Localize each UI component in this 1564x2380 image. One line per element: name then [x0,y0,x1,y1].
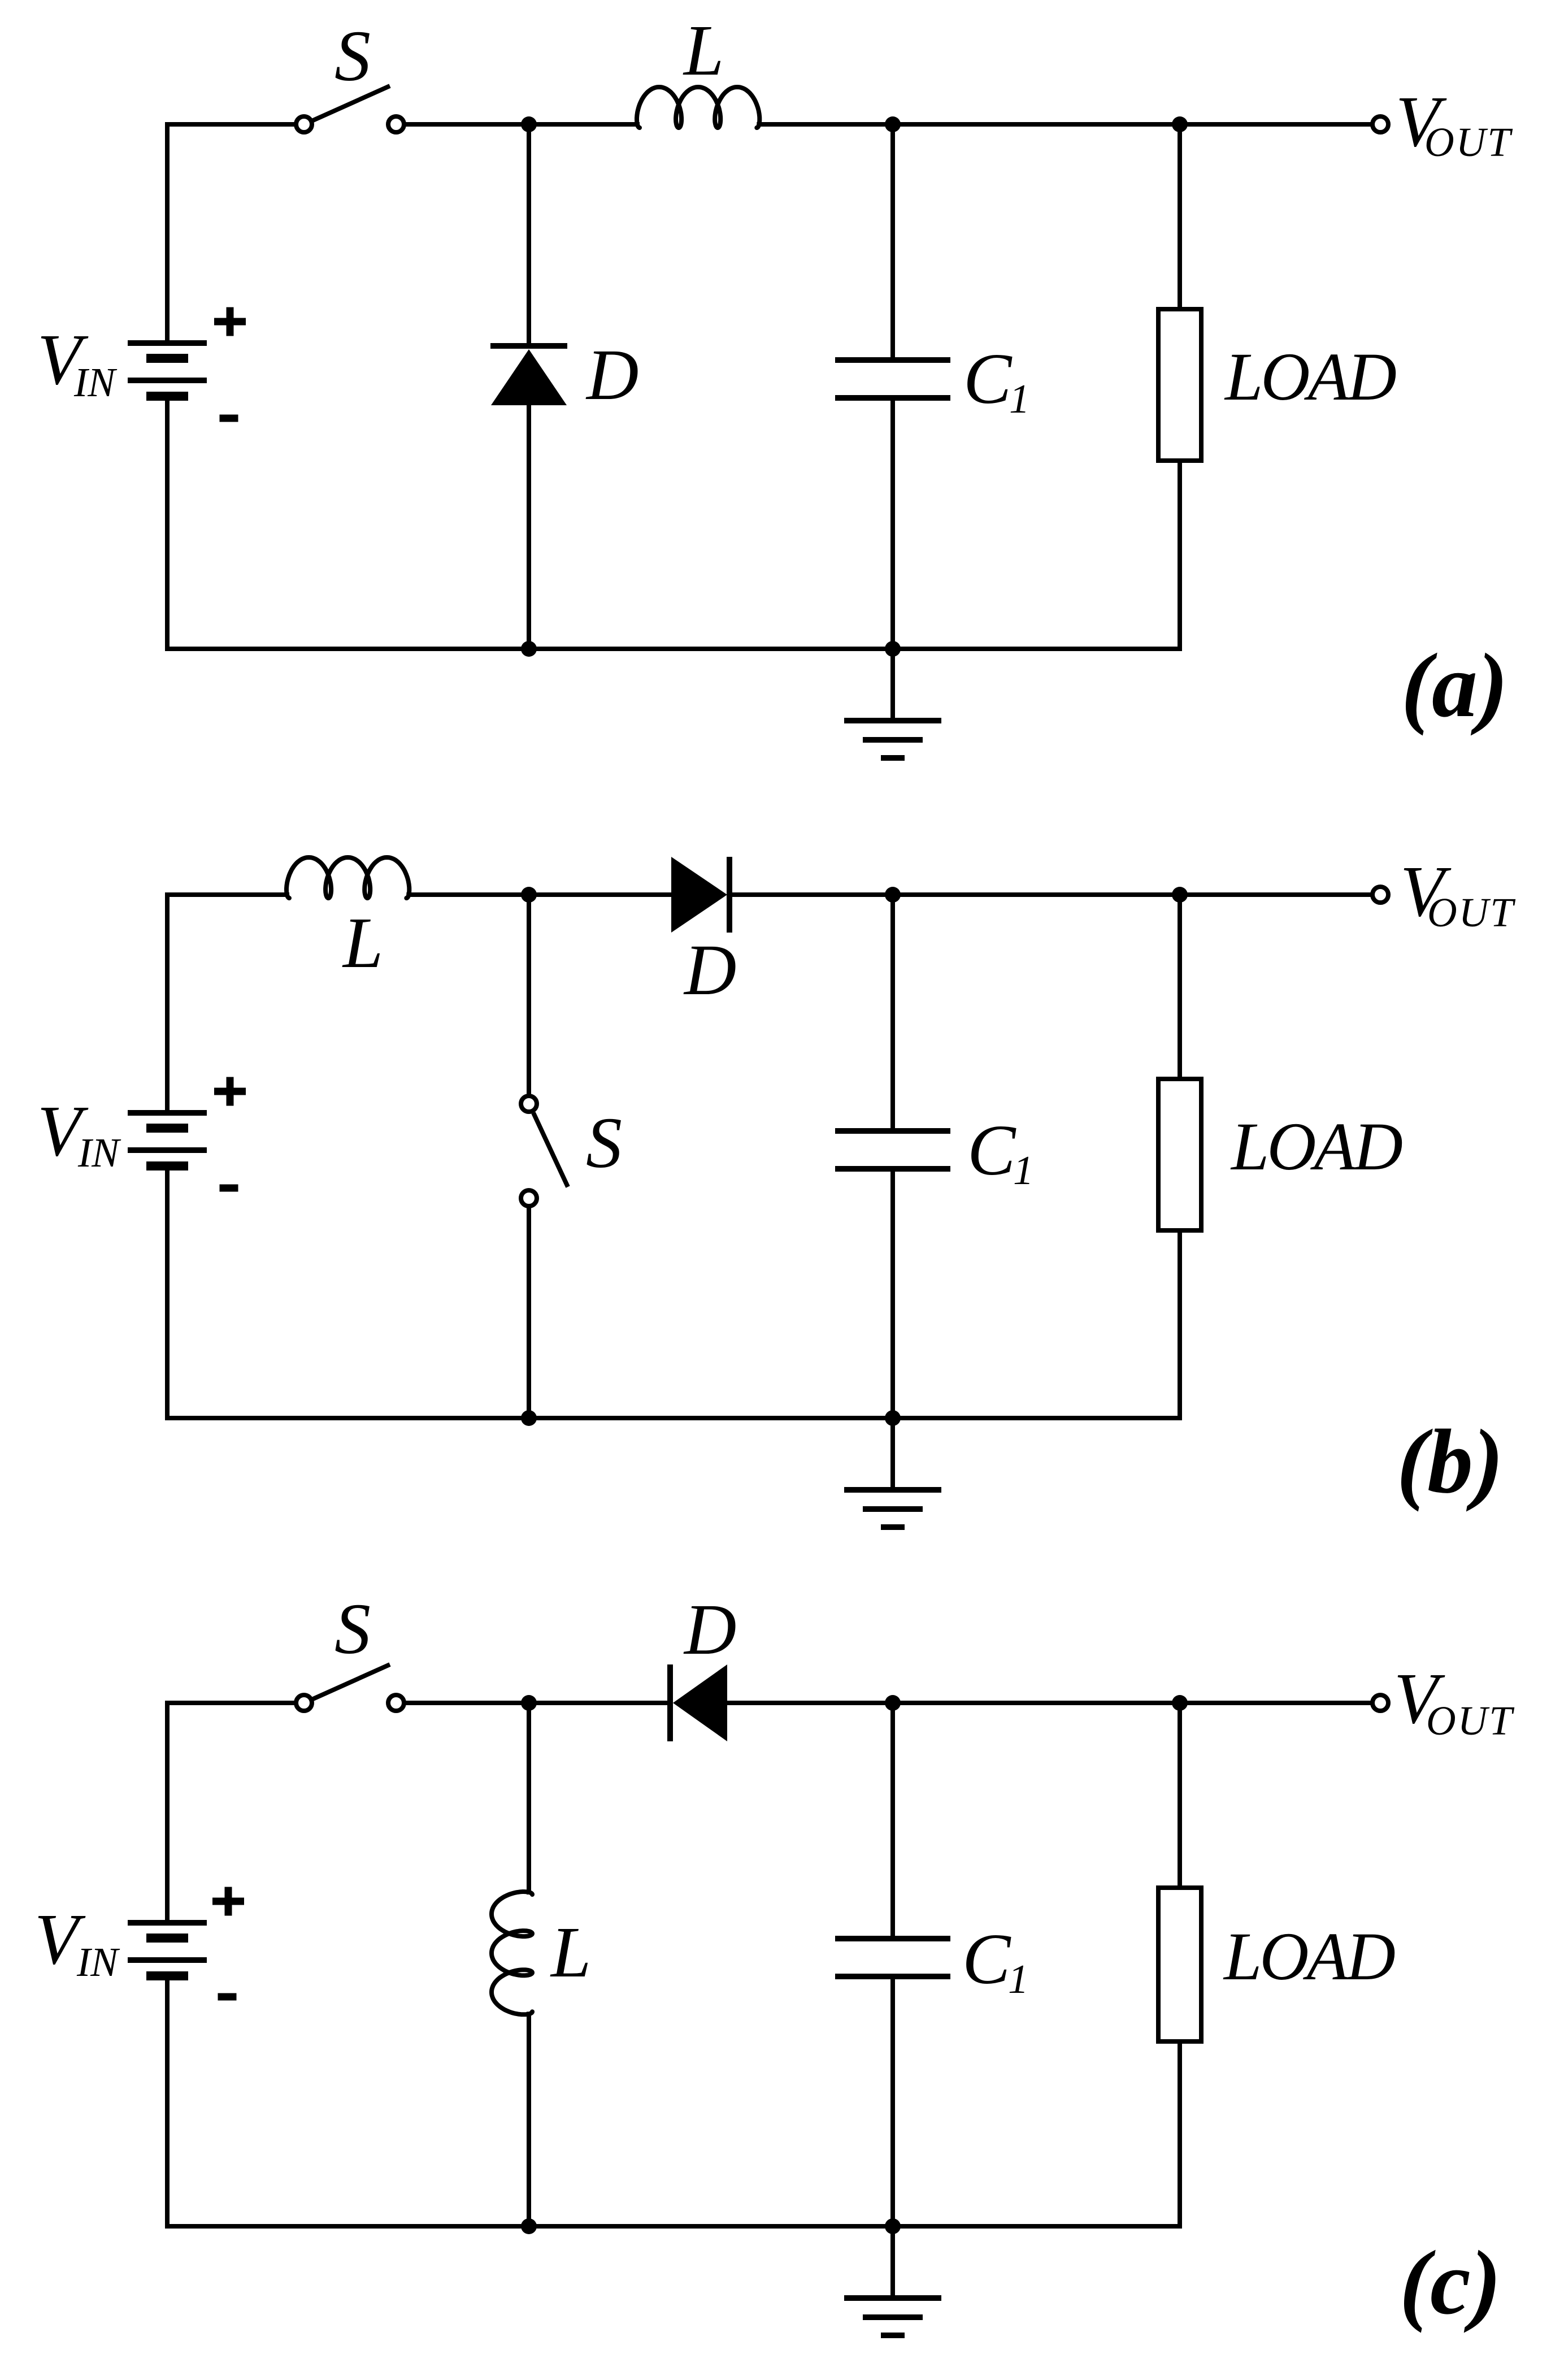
diode D (c) triangle [673,1664,727,1741]
svg-text:S: S [334,16,371,96]
svg-text:S: S [586,1103,622,1183]
switch S (b) lower contact [521,1190,537,1206]
svg-text:IN: IN [77,1130,121,1176]
wire c top right segment [727,1701,1371,1705]
wire c inductor branch upper [527,1703,531,1895]
wire a top-left segment [165,122,294,127]
wire a bottom rail [165,647,1182,651]
wire b top right segment [731,892,1371,897]
terminal Vout (c) [1372,1695,1388,1711]
label - (battery a) [220,415,238,422]
wire c LOAD branch upper [1178,1703,1182,1890]
node: ground-b junction [885,1410,901,1426]
label - (battery b) [220,1185,238,1192]
wire a top middle segment [406,122,640,127]
label - (battery c) [218,1993,237,2001]
wire a left rail [165,122,170,343]
wire b top middle segment [406,892,671,897]
capacitor C1 (b) bottom plate [835,1166,950,1172]
node: C1-b top junction [885,887,901,903]
svg-text:(c): (c) [1400,2232,1501,2334]
wire c inductor branch lower [527,2011,531,2226]
diode D (b) cathode bar [727,857,732,933]
svg-text:L: L [550,1912,591,1992]
capacitor C1 (b) top plate [835,1128,950,1134]
capacitor C1 (c) bottom plate [835,1974,950,1979]
label + (battery a) [214,318,246,326]
inductor L (circuit c) [492,1892,532,2014]
wire a C1 branch lower [890,398,895,649]
switch S (c) lever [313,1664,390,1699]
svg-text:D: D [683,1589,736,1670]
node: inductor-c bottom junction [521,2218,537,2234]
wire c C1 branch upper [890,1703,895,1939]
svg-text:C: C [963,339,1013,419]
svg-text:C: C [967,1110,1016,1190]
wire b switch branch upper [527,895,531,1094]
wire c top middle segment [406,1701,668,1705]
node: ground-a junction [885,641,901,657]
node: LOAD-b top junction [1172,887,1188,903]
wire c left rail lower [165,1976,170,2229]
node: ground-c junction [885,2218,901,2234]
terminal Vout (b) [1372,887,1388,903]
label + (battery b) [214,1088,246,1095]
switch S (b) upper contact [521,1096,537,1112]
wire a C1 branch upper [890,124,895,360]
wire c bottom rail [165,2224,1182,2229]
svg-text:OUT: OUT [1426,1698,1514,1744]
node: LOAD-c top junction [1172,1695,1188,1711]
node: LOAD-a top junction [1172,116,1188,132]
wire b C1 branch upper [890,895,895,1131]
capacitor C1 (a) top plate [835,357,950,363]
resistor LOAD (c) [1158,1888,1201,2041]
ground symbol (c) [890,2226,895,2298]
svg-text:D: D [683,930,736,1010]
diode D (c) cathode bar [667,1664,673,1741]
node: inductor-c top junction [521,1695,537,1711]
wire b C1 branch lower [890,1169,895,1418]
switch S1 lever [313,86,390,120]
battery Vin (a) [128,340,207,346]
node: C1-c top junction [885,1695,901,1711]
wire a left rail lower [165,396,170,651]
svg-text:OUT: OUT [1427,890,1515,935]
terminal Vout (a) [1372,116,1388,132]
svg-text:L: L [683,10,724,90]
svg-text:LOAD: LOAD [1224,339,1396,415]
resistor LOAD (b) [1158,1079,1201,1230]
switch S (c) left contact [296,1695,312,1711]
node: diode-a top junction [521,116,537,132]
wire a LOAD branch upper [1178,124,1182,311]
inductor L (circuit a) [637,87,759,128]
svg-text:D: D [585,335,638,415]
node: switch-b bottom junction [521,1410,537,1426]
wire c C1 branch lower [890,1976,895,2226]
svg-text:1: 1 [1008,1956,1029,2002]
wire b switch branch lower [527,1208,531,1418]
svg-text:IN: IN [76,1939,120,1985]
wire a diode branch lower [527,404,531,649]
node: diode-a bottom junction [521,641,537,657]
svg-text:(b): (b) [1397,1411,1504,1512]
diode D (a) cathode bar [490,343,567,349]
node: C1-a top junction [885,116,901,132]
switch S1 left contact [296,116,312,132]
wire b bottom rail [165,1416,1182,1420]
wire b LOAD branch upper [1178,895,1182,1081]
resistor LOAD (a) [1158,309,1201,461]
switch S (b) lever [533,1113,568,1187]
label + (battery c) [212,1898,244,1905]
svg-text:LOAD: LOAD [1223,1919,1395,1995]
svg-text:L: L [342,903,383,983]
svg-text:LOAD: LOAD [1230,1109,1402,1185]
ground symbol (a) [890,649,895,721]
battery Vin (c) [128,1920,207,1926]
svg-text:(a): (a) [1401,635,1508,736]
diode D (a) triangle [491,349,567,405]
wire b top-left segment [165,892,289,897]
svg-text:IN: IN [73,359,118,405]
svg-text:1: 1 [1009,376,1030,422]
node: switch-b top junction [521,887,537,903]
switch S1 right contact [388,116,404,132]
wire a top right segment [757,122,1371,127]
wire c LOAD branch lower [1178,2039,1182,2226]
battery Vin (b) [128,1110,207,1116]
svg-text:OUT: OUT [1424,119,1513,165]
wire b LOAD branch lower [1178,1228,1182,1418]
wire a LOAD branch lower [1178,458,1182,649]
svg-text:1: 1 [1013,1147,1034,1193]
wire c top-left segment [165,1701,294,1705]
diode D (b) triangle [671,857,727,933]
svg-text:C: C [962,1919,1011,1999]
wire b left rail upper [165,892,170,1113]
switch S (c) right contact [388,1695,404,1711]
wire c left rail upper [165,1701,170,1923]
capacitor C1 (c) top plate [835,1936,950,1941]
ground symbol (b) [890,1418,895,1490]
wire b left rail lower [165,1166,170,1420]
inductor L (circuit b) [286,857,409,898]
svg-text:S: S [334,1589,371,1669]
capacitor C1 (a) bottom plate [835,395,950,401]
wire a diode branch upper [527,124,531,346]
